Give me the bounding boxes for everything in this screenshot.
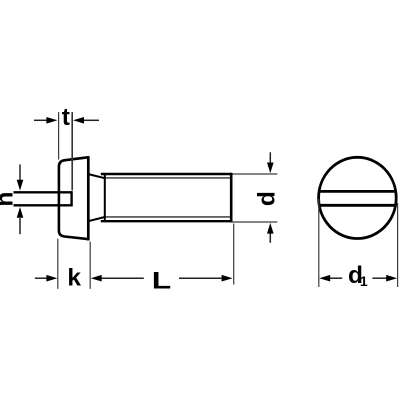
svg-text:L: L bbox=[152, 267, 171, 295]
svg-text:t: t bbox=[62, 104, 70, 131]
svg-text:n: n bbox=[0, 192, 19, 207]
svg-text:1: 1 bbox=[360, 273, 368, 289]
svg-text:d: d bbox=[254, 191, 281, 206]
svg-text:k: k bbox=[67, 265, 81, 292]
